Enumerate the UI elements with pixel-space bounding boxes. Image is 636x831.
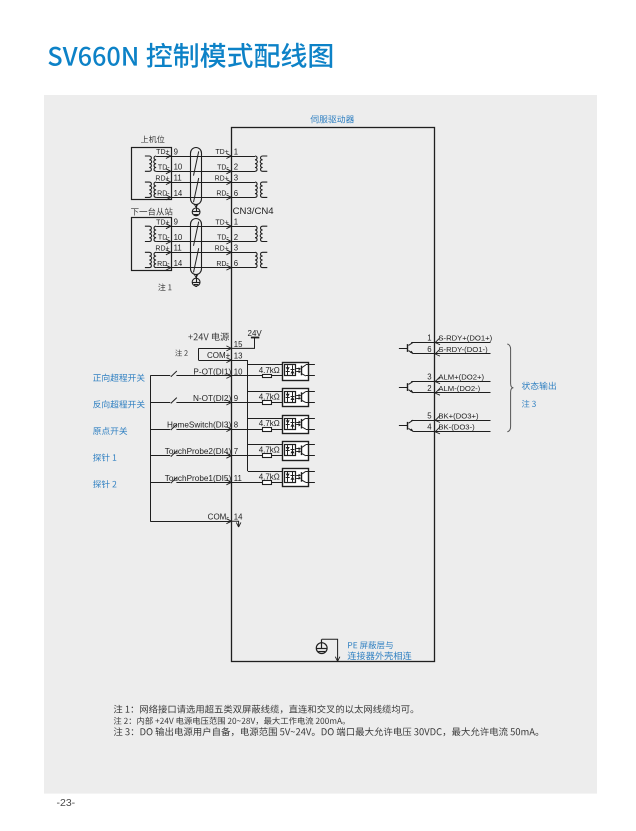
arrow COM- internal down <box>236 522 241 527</box>
svg-text:1: 1 <box>427 334 431 343</box>
resistor R1 4.7kΩ <box>263 375 272 378</box>
arrow into drive edge <box>226 224 231 229</box>
wire DI3 internal <box>232 429 263 431</box>
wire pin 6 to transformer <box>232 267 255 269</box>
shield earth symbol <box>192 208 200 216</box>
arrow DI4 pin <box>226 453 231 458</box>
wire DI4 left segment <box>150 455 170 457</box>
svg-text:6: 6 <box>234 189 238 198</box>
internal 24V rail <box>247 360 249 471</box>
arrow DI3 pin <box>226 427 231 432</box>
arrow DI5 pin <box>226 480 231 485</box>
svg-text:1: 1 <box>234 147 238 156</box>
wire pin 3 to transformer <box>232 252 255 254</box>
label 探针 2 <box>93 480 116 488</box>
svg-text:BK+(DO3+): BK+(DO3+) <box>438 411 479 420</box>
svg-text:7: 7 <box>234 447 238 456</box>
wire host TD+ from device to CN3 <box>156 156 232 158</box>
wire DI2 to drive <box>176 402 231 404</box>
svg-text:ALM+(DO2+): ALM+(DO2+) <box>438 373 484 382</box>
transistor Q3 <box>399 420 414 432</box>
wire pin15 COM+ supply <box>199 348 232 350</box>
resistor R4 4.7kΩ <box>263 454 272 458</box>
optocoupler U6 <box>283 469 315 487</box>
svg-text:11: 11 <box>174 174 182 183</box>
note 2 <box>114 717 345 725</box>
label 下一台从站 <box>131 208 172 216</box>
svg-text:4.7kΩ: 4.7kΩ <box>259 472 280 481</box>
svg-text:6: 6 <box>427 345 431 354</box>
optocoupler U4 <box>283 416 315 434</box>
svg-text:2: 2 <box>234 233 238 242</box>
svg-text:8: 8 <box>234 421 238 430</box>
resistor R3 4.7kΩ <box>263 428 272 432</box>
arrow into drive edge <box>226 180 231 185</box>
wire resistor to optocoupler <box>272 482 285 484</box>
wire S-RDY+(DO1+) <box>411 342 490 344</box>
wire host RD+ from device to CN3 <box>156 182 232 184</box>
arrow into device box edge <box>166 239 171 244</box>
svg-text:TD+: TD+ <box>156 149 169 156</box>
arrow into device box edge <box>166 180 171 185</box>
svg-text:4.7kΩ: 4.7kΩ <box>259 446 280 455</box>
svg-text:6: 6 <box>234 259 238 268</box>
arrow into drive edge <box>226 195 231 200</box>
transformer T2 winding right <box>154 252 156 267</box>
svg-text:COM-: COM- <box>208 513 230 522</box>
svg-text:BK-(DO3-): BK-(DO3-) <box>438 423 475 432</box>
wire resistor to optocoupler <box>272 402 285 404</box>
arrow into device box edge <box>166 250 171 255</box>
label 伺服驱动器 <box>310 115 354 123</box>
transformer T3 winding left (drive) <box>255 226 257 241</box>
wire slave RD+ from device to CN3 <box>156 252 232 254</box>
transformer T1 winding right <box>154 226 156 241</box>
wire resistor to optocoupler <box>272 375 285 377</box>
transformer T1 winding left <box>145 226 152 241</box>
transformer T4 winding right (drive) <box>260 182 267 197</box>
wire pin 2 to transformer <box>232 171 255 173</box>
wire DI4 internal <box>232 455 263 457</box>
label 探针 1 <box>93 453 116 461</box>
arrow pin 2 <box>435 388 440 395</box>
wire ALM-(DO2-) <box>413 392 490 394</box>
arrow into device box edge <box>166 265 171 270</box>
arrow into drive edge <box>226 239 231 244</box>
wire rail branch to optocoupler <box>248 471 285 473</box>
transformer T4 winding left (drive) <box>255 182 257 197</box>
shield earth symbol <box>192 278 200 286</box>
transformer T2 winding left <box>145 252 152 267</box>
wire pin 1 to transformer <box>232 226 255 228</box>
wire pin13 internal to rail <box>232 360 248 362</box>
transformer T3 winding left (drive) <box>255 156 257 171</box>
svg-text:5: 5 <box>427 411 432 420</box>
arrow on shield drain <box>194 274 198 278</box>
wire DI4 to drive <box>176 455 231 457</box>
wire S-RDY-(DO1-) <box>413 353 490 355</box>
arrow pin13 <box>226 358 231 363</box>
switch SW4 blade <box>171 451 177 457</box>
switch SW3 blade <box>171 424 177 430</box>
svg-text:2: 2 <box>427 384 431 393</box>
wire rail branch to optocoupler <box>248 364 285 366</box>
DI common bus wire <box>150 376 152 521</box>
wire DI2 left segment <box>150 402 170 404</box>
svg-text:1: 1 <box>234 218 238 227</box>
arrow pin 5 <box>435 416 440 423</box>
svg-text:ALM-(DO2-): ALM-(DO2-) <box>438 384 480 393</box>
svg-text:P-OT(DI1): P-OT(DI1) <box>193 367 231 376</box>
host device box <box>132 148 172 200</box>
wire COM- <box>150 521 232 523</box>
24V supply bar <box>251 337 259 339</box>
svg-text:14: 14 <box>174 259 183 268</box>
transformer T4 winding right (drive) <box>260 252 267 267</box>
svg-text:-23-: -23- <box>57 797 76 809</box>
arrow pin 3 <box>435 377 440 384</box>
svg-text:TD+: TD+ <box>215 149 228 156</box>
twist mark TD pair <box>194 222 199 246</box>
switch SW2 blade <box>171 398 177 404</box>
label 原点开关 <box>93 427 127 435</box>
wire host RD- from device to CN3 <box>156 197 232 199</box>
wire resistor to optocoupler <box>272 429 285 431</box>
wire DI5 internal <box>232 482 263 484</box>
diagram panel <box>44 95 597 794</box>
svg-text:3: 3 <box>234 174 238 183</box>
svg-text:3: 3 <box>234 244 238 253</box>
wire slave TD+ from device to CN3 <box>156 226 232 228</box>
shield drain wire <box>196 205 198 209</box>
wire host TD- from device to CN3 <box>156 171 232 173</box>
wire pin13 COM+ <box>199 360 232 362</box>
svg-text:9: 9 <box>234 394 238 403</box>
wire DI3 to drive <box>176 429 231 431</box>
svg-text:24V: 24V <box>248 329 263 338</box>
wire pin 2 to transformer <box>232 241 255 243</box>
arrow PE wire down <box>335 657 340 662</box>
svg-text:TD+: TD+ <box>215 219 228 226</box>
arrow into device box edge <box>166 195 171 200</box>
svg-text:4.7kΩ: 4.7kΩ <box>259 419 280 428</box>
wire slave TD- from device to CN3 <box>156 241 232 243</box>
svg-text:11: 11 <box>174 244 182 253</box>
wire rail branch to optocoupler <box>248 444 285 446</box>
wire DI2 internal <box>232 402 263 404</box>
label PE 屏蔽层与 <box>348 641 393 649</box>
arrow into drive edge <box>226 250 231 255</box>
svg-text:3: 3 <box>427 373 431 382</box>
wire pin15 internal to 24V <box>232 337 255 348</box>
svg-text:RD+: RD+ <box>155 175 169 182</box>
svg-text:15: 15 <box>234 340 243 349</box>
wire DI1 left segment <box>150 375 170 377</box>
wire BK+(DO3+) <box>411 420 490 422</box>
label 状态输出 <box>522 382 556 390</box>
brace 状态输出 <box>507 344 513 432</box>
svg-text:4: 4 <box>427 423 432 432</box>
transformer T4 winding left (drive) <box>255 252 257 267</box>
resistor R5 4.7kΩ <box>263 481 272 485</box>
svg-text:9: 9 <box>174 218 178 227</box>
wire rail branch to optocoupler <box>248 418 285 420</box>
svg-text:13: 13 <box>234 352 243 361</box>
wire DI5 to drive <box>176 482 231 484</box>
svg-text:4.7kΩ: 4.7kΩ <box>259 393 280 402</box>
arrow DI1 pin <box>226 373 231 378</box>
twist mark TD pair <box>194 151 199 175</box>
arrow COM- pin <box>226 519 231 524</box>
svg-text:10: 10 <box>174 233 183 242</box>
arrow on shield drain <box>194 204 198 208</box>
transformer T3 winding right (drive) <box>260 156 267 171</box>
svg-text:RD+: RD+ <box>155 246 169 253</box>
svg-text:14: 14 <box>234 513 243 522</box>
svg-text:N-OT(DI2): N-OT(DI2) <box>193 394 231 403</box>
svg-text:S-RDY-(DO1-): S-RDY-(DO1-) <box>438 345 488 354</box>
svg-text:RD-: RD- <box>216 191 229 198</box>
svg-text:RD+: RD+ <box>215 175 229 182</box>
svg-text:TD+: TD+ <box>156 219 169 226</box>
svg-text:RD-: RD- <box>216 261 229 268</box>
twist mark RD pair <box>194 178 199 202</box>
svg-text:TouchProbe1(DI5): TouchProbe1(DI5) <box>165 474 232 483</box>
arrow DI2 pin <box>226 400 231 405</box>
wire pin 1 to transformer <box>232 156 255 158</box>
label +24V 电源 <box>188 332 229 340</box>
wire DI3 left segment <box>150 429 170 431</box>
arrow pin 1 <box>435 338 440 345</box>
switch SW1 blade <box>171 371 177 377</box>
twist mark RD pair <box>194 248 199 272</box>
transistor Q2 <box>399 381 414 393</box>
svg-text:RD+: RD+ <box>215 246 229 253</box>
arrow pin 6 <box>435 349 440 356</box>
svg-text:10: 10 <box>174 163 183 172</box>
svg-text:14: 14 <box>174 189 183 198</box>
wire resistor to optocoupler <box>272 455 285 457</box>
svg-text:TouchProbe2(DI4): TouchProbe2(DI4) <box>165 447 232 456</box>
resistor R2 4.7kΩ <box>263 401 272 405</box>
arrow into device box edge <box>166 169 171 174</box>
optocoupler U2 <box>283 363 315 381</box>
label 连接器外壳相连 <box>348 651 412 660</box>
arrow into device box edge <box>166 224 171 229</box>
shield drain wire <box>196 275 198 279</box>
transformer T1 winding left <box>145 156 152 171</box>
svg-text:CN3/CN4: CN3/CN4 <box>233 206 275 217</box>
svg-text:2: 2 <box>234 163 238 172</box>
arrow pin15 <box>226 346 231 351</box>
arrow into drive edge <box>226 265 231 270</box>
note 1 <box>114 705 414 714</box>
svg-text:9: 9 <box>174 147 178 156</box>
note 3 <box>114 727 538 736</box>
arrow into drive edge <box>226 154 231 159</box>
arrow into drive edge <box>226 169 231 174</box>
optocoupler U3 <box>283 389 315 407</box>
wire DI1 internal <box>232 375 263 377</box>
title SV660N (latin part) <box>48 47 136 66</box>
svg-text:4.7kΩ: 4.7kΩ <box>259 366 280 375</box>
arrow into device box edge <box>166 154 171 159</box>
svg-text:S-RDY+(DO1+): S-RDY+(DO1+) <box>438 334 492 343</box>
wire slave RD- from device to CN3 <box>156 267 232 269</box>
label 上机位 <box>141 135 164 142</box>
transformer T2 winding right <box>154 182 156 197</box>
wire PE to case <box>322 639 338 661</box>
transistor Q1 <box>399 342 414 354</box>
wire ALM+(DO2+) <box>411 381 490 383</box>
slave device box <box>132 218 172 271</box>
arrow pin 4 <box>435 427 440 434</box>
label 正向超程开关 <box>93 374 145 382</box>
shielded twisted-pair cable slave <box>191 219 202 275</box>
wire COM- internal <box>232 521 239 526</box>
label 注 1 <box>158 284 171 291</box>
svg-text:TD-: TD- <box>217 165 229 172</box>
wire pin 3 to transformer <box>232 182 255 184</box>
label 注 2 <box>175 350 188 357</box>
PE earth symbol <box>316 639 327 653</box>
transformer T3 winding right (drive) <box>260 226 267 241</box>
wire pin 6 to transformer <box>232 197 255 199</box>
shielded twisted-pair cable host <box>191 148 202 205</box>
wire DI1 to drive <box>176 375 231 377</box>
servo drive box U1 <box>232 128 435 662</box>
label 反向超程开关 <box>93 400 145 408</box>
optocoupler U5 <box>283 442 315 461</box>
svg-text:TD-: TD- <box>217 235 229 242</box>
wire rail branch to optocoupler <box>248 391 285 393</box>
wire DI5 left segment <box>150 482 170 484</box>
jumper 15-13 <box>198 348 200 360</box>
transformer T2 winding left <box>145 182 152 197</box>
wire BK-(DO3-) <box>413 431 490 433</box>
title 控制模式配线图 (cjk part) <box>147 43 333 68</box>
svg-text:HomeSwitch(DI3): HomeSwitch(DI3) <box>167 421 231 430</box>
switch SW5 blade <box>171 477 177 483</box>
svg-text:11: 11 <box>234 474 242 483</box>
label 注 3 (DO) <box>522 400 536 408</box>
transformer T1 winding right <box>154 156 156 171</box>
